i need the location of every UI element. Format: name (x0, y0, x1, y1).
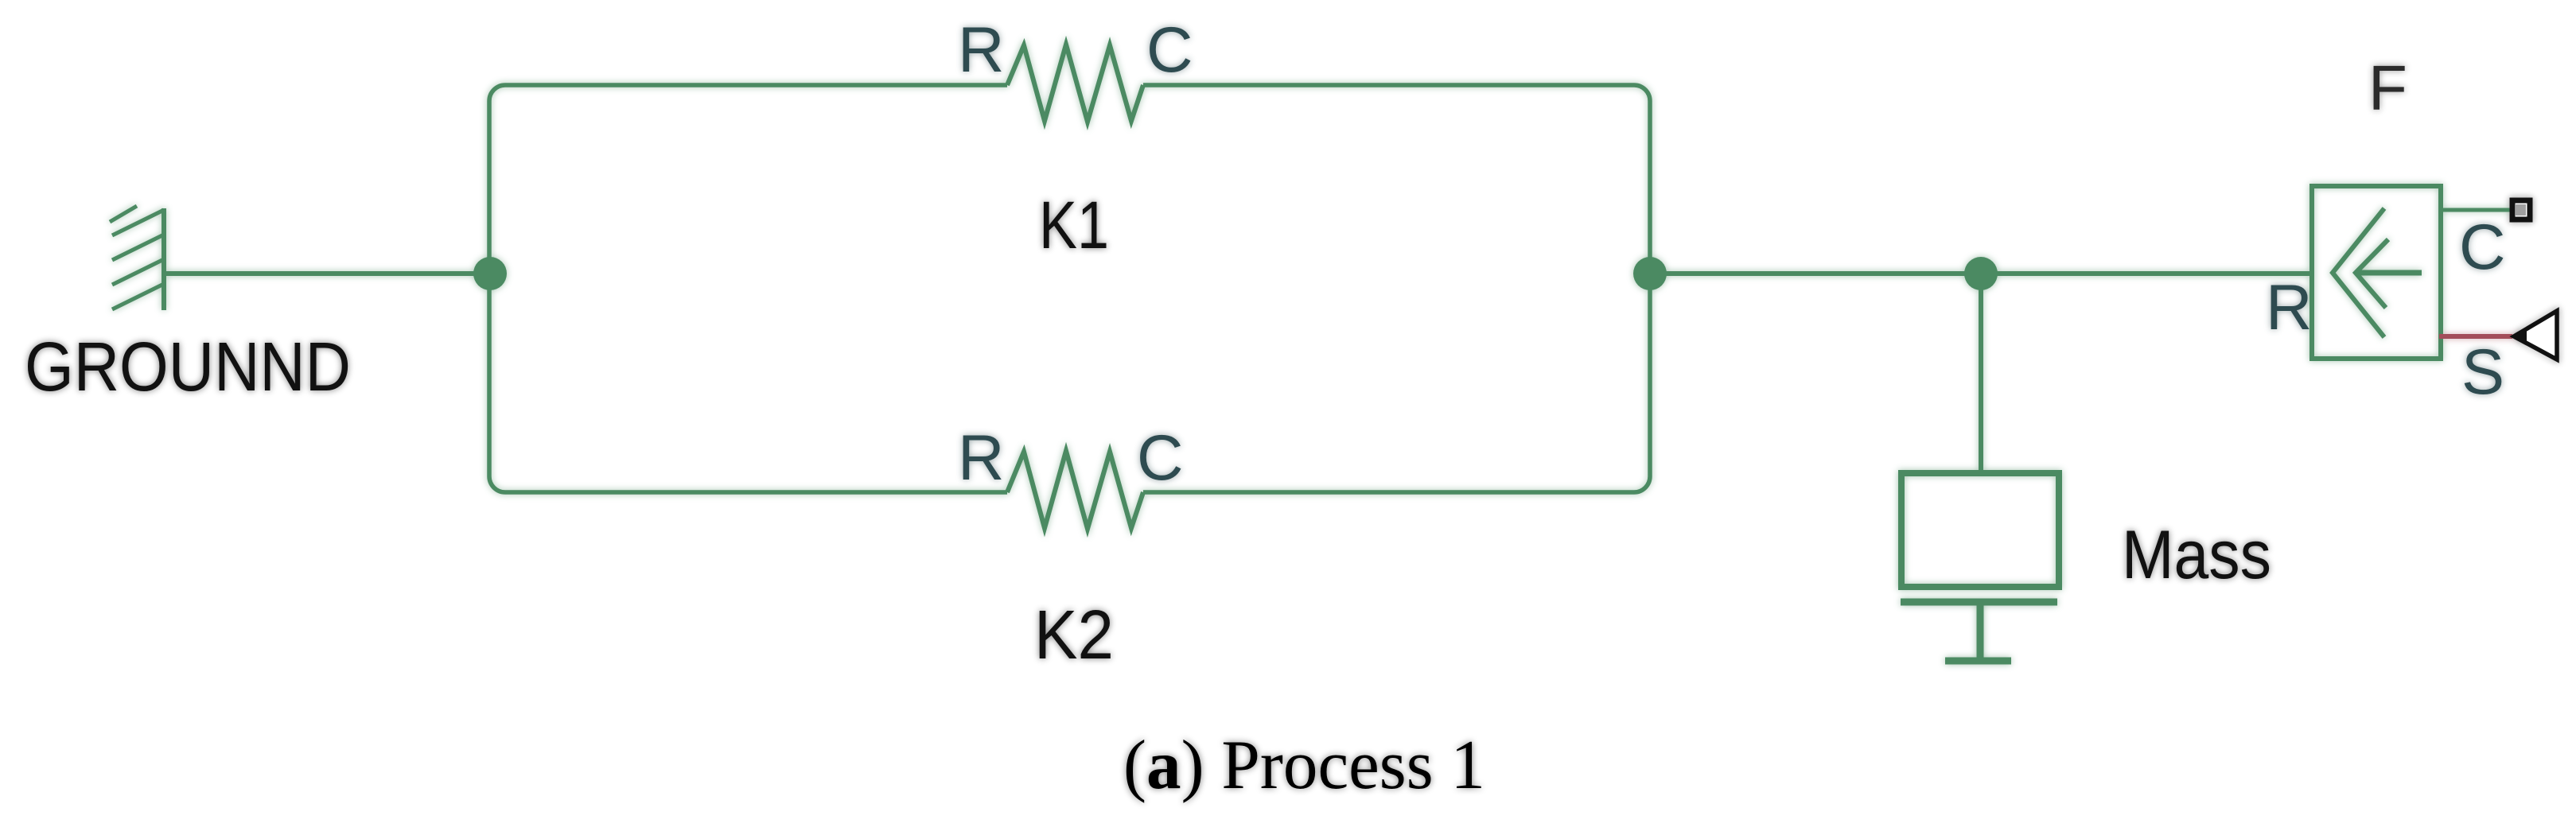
wire: node 3 down to mass (1979, 274, 1983, 472)
bottom wire right segment (1143, 490, 1634, 495)
svg-text:GROUNND: GROUNND (25, 328, 351, 406)
force source arrow shaft (2357, 270, 2422, 276)
wire: ground to node 1 (164, 271, 489, 276)
force source inner chevron (2356, 239, 2388, 308)
node 3 junction dot (1964, 257, 1998, 290)
svg-text:C: C (1146, 14, 1193, 86)
svg-text:R: R (958, 422, 1005, 494)
force source outer chevron (2333, 208, 2384, 337)
svg-text:C: C (2459, 212, 2506, 283)
svg-text:R: R (2266, 272, 2313, 344)
svg-text:K2: K2 (1034, 596, 1114, 674)
top wire left segment (505, 83, 1007, 87)
node 2 junction dot (1633, 257, 1667, 290)
svg-text:(a) Process 1: (a) Process 1 (1123, 727, 1485, 804)
ground wall symbol (110, 206, 164, 310)
svg-text:C: C (1137, 422, 1184, 494)
mass block (1901, 473, 2059, 587)
wire: node 2 to force source F (1650, 271, 2312, 276)
svg-text:F: F (2368, 52, 2407, 123)
port S triangle terminal (2514, 311, 2557, 359)
svg-text:S: S (2461, 336, 2504, 408)
svg-text:R: R (958, 14, 1005, 86)
svg-text:Mass: Mass (2122, 517, 2271, 593)
mass ground plate (1901, 599, 2057, 606)
port C wire (2439, 208, 2512, 212)
force source block F (2312, 186, 2441, 359)
top wire right segment (1143, 83, 1634, 87)
bottom wire left segment (505, 490, 1007, 495)
parallel loop right edge wire (1634, 85, 1650, 492)
port C square terminal (2512, 200, 2530, 219)
parallel loop left edge wire (489, 85, 505, 492)
mass ground stem (1977, 602, 1984, 661)
node 1 junction dot (473, 257, 507, 290)
spring K1 zigzag (1007, 45, 1143, 122)
port S wire (red) (2439, 334, 2512, 339)
mass ground foot (1945, 658, 2011, 665)
spring K2 zigzag (1007, 451, 1143, 529)
svg-text:K1: K1 (1039, 188, 1109, 262)
